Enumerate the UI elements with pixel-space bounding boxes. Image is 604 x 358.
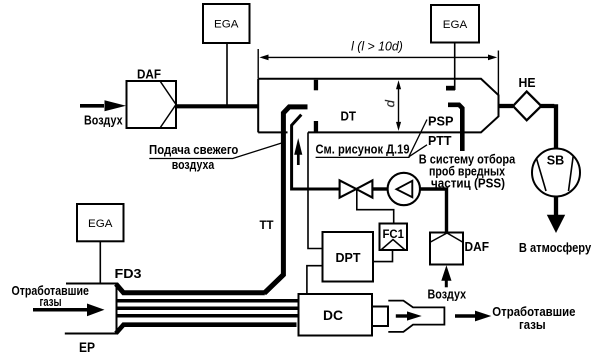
svg-text:Воздух: Воздух xyxy=(84,113,123,127)
svg-text:Воздух: Воздух xyxy=(428,288,467,302)
wire EGA1 to dilution-air line xyxy=(226,43,228,106)
flow divider tube bundle xyxy=(116,301,298,334)
filter DAF1 box xyxy=(127,81,177,128)
pump P (circle with left triangle) xyxy=(388,173,420,205)
svg-text:DAF: DAF xyxy=(465,239,490,254)
flange tick bottom xyxy=(314,121,318,132)
valve (bowtie) xyxy=(340,180,373,197)
svg-text:l (l > 10d): l (l > 10d) xyxy=(351,39,403,54)
svg-text:FC1: FC1 xyxy=(382,227,404,241)
box DPT (differential pressure transducer) xyxy=(323,232,374,282)
wire DT to HE (thick) xyxy=(499,104,514,108)
wire valve to FC1 to DPT (thin) xyxy=(357,189,394,224)
svg-text:FD3: FD3 xyxy=(115,266,142,281)
heat exchanger HE (diamond) xyxy=(513,92,541,121)
wire DPT pressure tap A (tunnel to DPT) xyxy=(308,132,323,248)
dilution tunnel DT outline xyxy=(258,79,498,133)
box FC1 (flow controller) xyxy=(380,224,408,251)
flow arrow up in TT discharge xyxy=(294,138,302,165)
label d xyxy=(382,99,397,107)
svg-text:EGA: EGA xyxy=(88,218,113,230)
probe foot of EGA2 xyxy=(446,86,455,91)
svg-text:См. рисунок Д.19: См. рисунок Д.19 xyxy=(316,143,410,157)
svg-text:газы: газы xyxy=(40,295,62,309)
arrow flow into nozzle xyxy=(396,311,422,320)
dimension line l xyxy=(258,49,498,95)
svg-text:DAF: DAF xyxy=(137,66,161,81)
exhaust pipe EP (open box) xyxy=(65,284,117,334)
DC outlet stub xyxy=(372,307,388,327)
svg-text:газы: газы xyxy=(519,318,546,332)
svg-text:TT: TT xyxy=(260,218,275,232)
wire dilution air line DAF1 to tunnel xyxy=(176,104,258,108)
svg-text:ЕР: ЕР xyxy=(79,340,95,355)
svg-text:DC: DC xyxy=(323,308,343,323)
svg-text:SB: SB xyxy=(547,153,565,168)
arrow exhaust gases out xyxy=(455,311,491,322)
sample line (inner) from tunnel down to valve xyxy=(292,115,340,189)
label Подача свежего воздуха with leader xyxy=(149,142,284,172)
label Отработавшие газы (inlet) xyxy=(12,284,89,309)
wire DPT pressure tap B (DPT to DC) xyxy=(307,266,323,294)
svg-text:PSP: PSP xyxy=(428,114,454,129)
wire EGA2 sample probe into tunnel xyxy=(454,43,456,91)
wire pump to DAF2 (thick, corner) xyxy=(419,187,446,232)
svg-text:воздуха: воздуха xyxy=(172,158,215,172)
arrow exhaust gas into EP xyxy=(33,304,105,317)
sampling probe PSP/PTT (thick, in tunnel) xyxy=(448,105,462,151)
svg-text:PTT: PTT xyxy=(428,133,452,148)
svg-text:DT: DT xyxy=(340,110,356,124)
wire HE to blower SB (thick) xyxy=(541,104,556,148)
label Отработавшие газы (outlet) xyxy=(492,305,575,332)
wire EGA3 to exhaust pipe EP xyxy=(99,241,101,283)
arrow air up into DAF2 xyxy=(441,265,451,287)
svg-text:d: d xyxy=(382,99,397,107)
outlet nozzle (converging duct) xyxy=(388,301,444,332)
transfer tube TT (thick outer wall) xyxy=(116,107,308,293)
label См. рисунок Д.19 with underline and leaders to PSP PTT xyxy=(316,120,428,158)
svg-text:Подача свежего: Подача свежего xyxy=(149,143,239,157)
box DC (exhaust damper) xyxy=(299,294,373,336)
box EGA1 (top left analyzer) xyxy=(203,4,250,43)
svg-text:EGA: EGA xyxy=(214,19,239,31)
filter DAF2 box (dilution air filter for PSS) xyxy=(430,233,463,265)
box EGA3 (bottom left analyzer) xyxy=(77,204,124,241)
box EGA2 (top right analyzer) xyxy=(431,5,479,43)
arrow exhaust to atmosphere xyxy=(547,197,565,234)
dimension d (tunnel diameter) xyxy=(396,80,401,131)
svg-text:Отработавшие: Отработавшие xyxy=(492,305,575,319)
svg-text:HE: HE xyxy=(519,75,536,90)
svg-text:В атмосферу: В атмосферу xyxy=(519,241,591,255)
svg-text:DPT: DPT xyxy=(336,250,361,265)
label В систему отбора проб вредных частиц (PSS) xyxy=(419,153,516,191)
wire valve to pump (thick) xyxy=(373,187,389,190)
flange tick top xyxy=(314,80,318,91)
svg-text:EGA: EGA xyxy=(443,19,468,31)
arrow air inlet xyxy=(80,100,126,111)
blower SB (circle with blades) xyxy=(532,149,580,197)
